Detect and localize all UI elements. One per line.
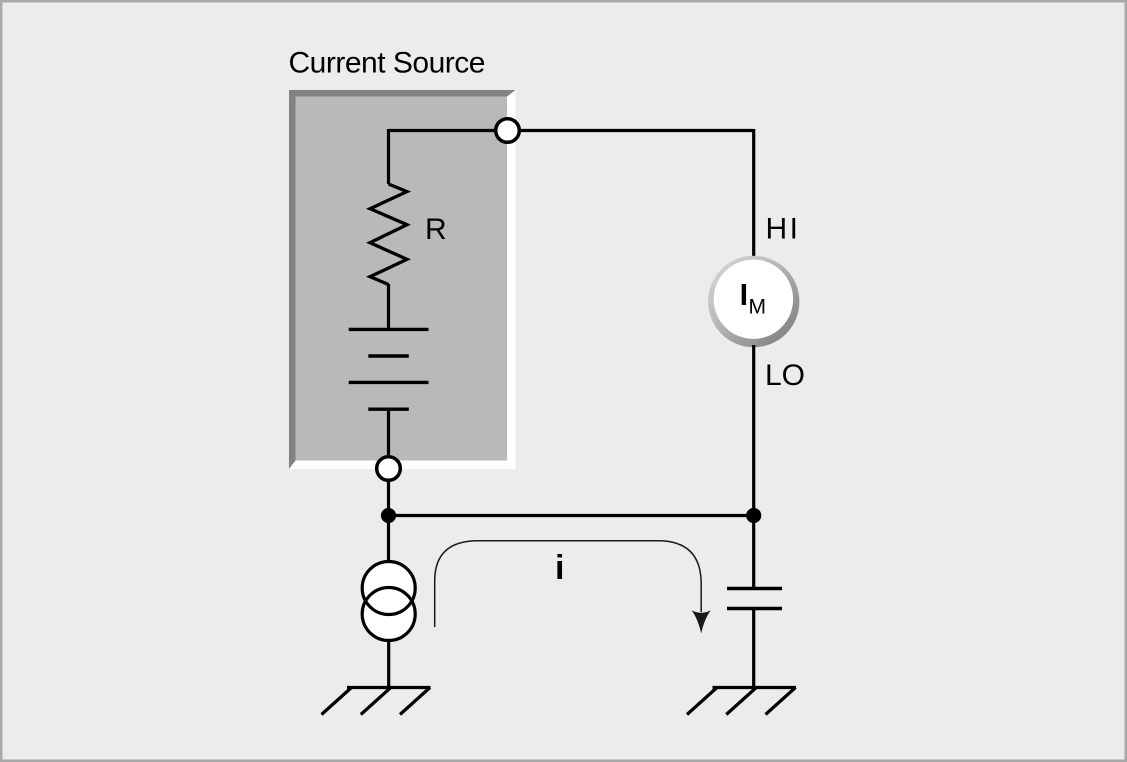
battery V1 plate short 2	[368, 408, 409, 411]
bottom horizontal wire	[389, 514, 754, 517]
svg-text:Current Source: Current Source	[289, 47, 485, 80]
current source enclosure shaded interior	[296, 97, 508, 461]
svg-text:HI: HI	[766, 213, 801, 246]
battery V1 plate long 2	[349, 381, 429, 384]
wire current source to ground	[387, 640, 390, 688]
current source enclosure white bevel edge	[289, 90, 516, 469]
battery V1 plate short 1	[368, 354, 409, 357]
wire left vertical to resistor	[387, 129, 390, 184]
wire right vertical top (HI)	[752, 129, 755, 258]
svg-text:LO: LO	[765, 359, 805, 392]
current flow arrowhead	[692, 610, 711, 633]
ground left	[322, 688, 431, 715]
capacitor plate top	[727, 587, 782, 590]
resistor R	[370, 184, 407, 285]
terminal node (open circle) bottom	[377, 457, 401, 481]
current flow arrow i (curved)	[435, 541, 702, 627]
wire resistor to battery	[387, 284, 390, 329]
svg-text:M: M	[749, 296, 767, 319]
capacitor plate bottom	[727, 607, 782, 610]
svg-text:R: R	[425, 213, 447, 246]
svg-text:i: i	[555, 549, 564, 587]
battery V1 plate long 1	[349, 328, 429, 331]
junction dot right	[746, 508, 761, 523]
svg-text:I: I	[740, 278, 748, 312]
wire capacitor to ground	[752, 609, 755, 688]
wire ammeter to capacitor	[752, 345, 755, 588]
current source I1 (two overlapping circles)	[362, 562, 415, 641]
terminal node (open circle) top	[496, 119, 520, 143]
ground right	[687, 688, 796, 715]
current source enclosure dark bevel edge	[289, 90, 516, 469]
ammeter IM ring (gradient bezel)	[708, 256, 799, 347]
wire battery to output terminal	[387, 409, 390, 457]
wire terminal to bottom junction and current source	[387, 480, 390, 563]
junction dot left	[381, 508, 396, 523]
wire top horizontal	[389, 129, 754, 132]
ammeter IM face (white)	[714, 260, 793, 339]
